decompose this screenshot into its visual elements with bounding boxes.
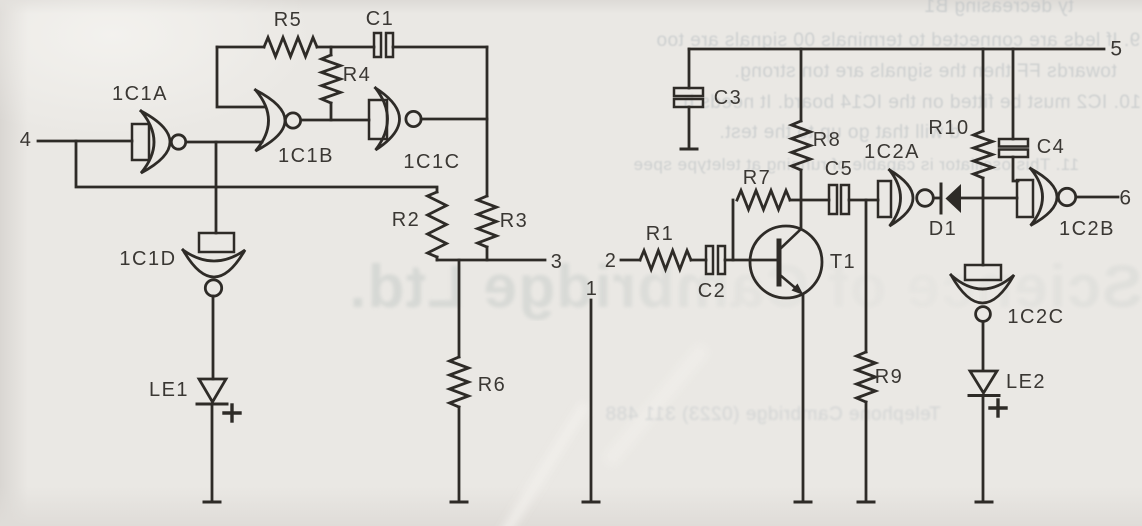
svg-text:5: 5 bbox=[1110, 37, 1123, 60]
svg-text:1C2C: 1C2C bbox=[1007, 306, 1064, 328]
svg-text:1: 1 bbox=[586, 278, 599, 300]
svg-text:R2: R2 bbox=[392, 209, 421, 231]
svg-text:D1: D1 bbox=[929, 218, 958, 240]
svg-text:R7: R7 bbox=[743, 167, 772, 189]
svg-text:C3: C3 bbox=[714, 87, 743, 109]
svg-text:R9: R9 bbox=[875, 366, 904, 388]
svg-text:6: 6 bbox=[1119, 186, 1132, 209]
svg-text:2: 2 bbox=[605, 250, 618, 272]
svg-text:1C2B: 1C2B bbox=[1059, 218, 1115, 240]
svg-text:R5: R5 bbox=[274, 9, 303, 31]
svg-text:1C1A: 1C1A bbox=[112, 83, 168, 105]
svg-text:R10: R10 bbox=[928, 117, 969, 139]
svg-text:C5: C5 bbox=[825, 158, 854, 180]
svg-text:1C2A: 1C2A bbox=[864, 141, 920, 163]
svg-text:1C1C: 1C1C bbox=[403, 151, 460, 173]
svg-text:R1: R1 bbox=[646, 223, 675, 245]
svg-text:1C1B: 1C1B bbox=[278, 145, 334, 167]
svg-text:R4: R4 bbox=[343, 64, 372, 86]
svg-text:C2: C2 bbox=[698, 280, 727, 302]
svg-text:3: 3 bbox=[551, 251, 564, 273]
svg-text:R6: R6 bbox=[478, 374, 507, 396]
svg-text:C1: C1 bbox=[366, 8, 395, 30]
svg-text:R8: R8 bbox=[813, 129, 842, 151]
svg-text:T1: T1 bbox=[830, 251, 856, 273]
svg-text:R3: R3 bbox=[500, 210, 529, 232]
svg-text:LE1: LE1 bbox=[149, 379, 189, 401]
svg-text:4: 4 bbox=[20, 129, 33, 151]
svg-text:1C1D: 1C1D bbox=[119, 248, 176, 270]
svg-text:C4: C4 bbox=[1037, 136, 1066, 158]
svg-text:LE2: LE2 bbox=[1006, 371, 1046, 393]
